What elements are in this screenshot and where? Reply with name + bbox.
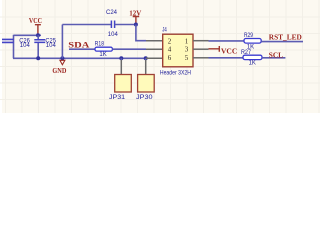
- svg-text:4: 4: [168, 46, 172, 54]
- pin 1 stub: [193, 40, 209, 42]
- svg-text:5: 5: [185, 54, 189, 62]
- wire C24 right to 12V node: [115, 24, 136, 26]
- junction dot GND tap: [60, 56, 64, 60]
- svg-text:104: 104: [20, 43, 31, 49]
- svg-text:JP31: JP31: [109, 94, 126, 101]
- capacitor C26 (cut at left edge): [2, 38, 31, 49]
- svg-text:1K: 1K: [99, 52, 106, 58]
- svg-text:VCC: VCC: [29, 16, 42, 25]
- svg-text:R27: R27: [241, 50, 252, 56]
- connector J4 Header 3X2H: [160, 27, 193, 77]
- junction dot JP30 tap: [144, 56, 148, 60]
- svg-text:C24: C24: [106, 9, 118, 16]
- svg-text:R18: R18: [95, 42, 105, 48]
- svg-text:VCC: VCC: [221, 46, 237, 55]
- svg-text:1: 1: [185, 37, 189, 45]
- pin 3 stub: [193, 48, 209, 50]
- svg-text:RST_LED: RST_LED: [269, 33, 303, 42]
- svg-text:SCL: SCL: [269, 50, 283, 59]
- svg-text:SDA: SDA: [68, 40, 89, 49]
- jumper JP31: [109, 75, 131, 102]
- svg-text:104: 104: [46, 43, 57, 49]
- wire SDA to R18: [69, 48, 95, 50]
- pin 2 stub: [146, 40, 163, 42]
- svg-text:GND: GND: [52, 66, 66, 75]
- pin 5 stub: [193, 57, 209, 59]
- wire R29 to RST_LED: [261, 41, 303, 43]
- capacitor C24: [106, 9, 118, 38]
- svg-text:J4: J4: [162, 27, 167, 34]
- svg-text:6: 6: [168, 54, 172, 62]
- wire top rail: [14, 34, 42, 36]
- power port 12V: [129, 9, 141, 24]
- junction dot at VCC rail: [36, 33, 40, 37]
- svg-text:1K: 1K: [249, 61, 256, 67]
- wire 12V node down to pin2 row: [136, 25, 146, 41]
- power port VCC (left): [29, 16, 42, 35]
- ground symbol GND: [52, 60, 66, 75]
- svg-text:JP30: JP30: [136, 94, 153, 101]
- wire R18 to pin4: [112, 48, 146, 50]
- svg-text:104: 104: [108, 31, 119, 38]
- wire JP30 lead: [145, 58, 147, 60]
- wire left vertical: [13, 35, 15, 59]
- svg-text:Header 3X2H: Header 3X2H: [160, 70, 191, 77]
- pin 4 stub: [146, 48, 163, 50]
- pin 6 stub: [146, 57, 163, 59]
- pin JP30: [145, 60, 147, 75]
- pin JP31: [120, 60, 122, 75]
- power port VCC (right): [209, 46, 238, 55]
- resistor R27: [241, 50, 262, 66]
- resistor R18: [95, 42, 113, 58]
- wire GND rail: [13, 57, 146, 59]
- svg-text:3: 3: [185, 46, 189, 54]
- junction dot 12V node: [134, 23, 138, 27]
- wire pin1 to R29: [209, 40, 245, 42]
- wire C24 left: [62, 24, 111, 26]
- wire R27 to SCL: [262, 57, 285, 59]
- svg-text:R29: R29: [244, 33, 254, 39]
- svg-text:2: 2: [168, 37, 172, 45]
- jumper JP30: [136, 75, 154, 102]
- wire SDA/C24 vertical: [61, 25, 63, 59]
- resistor R29: [244, 33, 261, 51]
- wire JP31 lead: [120, 58, 122, 60]
- wire pin5 to R27: [209, 57, 244, 59]
- junction dot JP31 tap: [119, 56, 123, 60]
- junction dot C25 bottom: [36, 56, 40, 60]
- capacitor C25: [34, 35, 56, 58]
